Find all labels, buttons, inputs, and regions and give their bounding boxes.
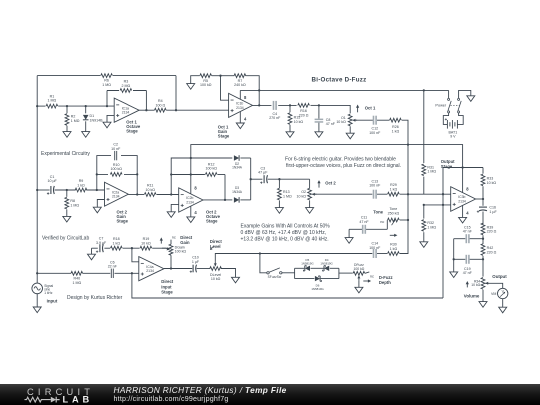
wire R29 to opamp: [400, 193, 451, 195]
ground DFuzz: [355, 287, 363, 293]
svg-text:nc: nc: [172, 236, 176, 240]
label Output Stage: [441, 159, 455, 169]
wire Oct2 to C13: [330, 193, 372, 195]
svg-text:R40: R40: [74, 276, 81, 280]
svg-text:R2: R2: [71, 115, 76, 119]
wire DLevel to C14: [260, 253, 387, 255]
resistor R8: [65, 190, 79, 216]
ground rail B: [420, 242, 428, 248]
label D-Fuzz Depth: [379, 275, 393, 285]
footer title text: [114, 385, 287, 395]
svg-text:100 kΩ: 100 kΩ: [353, 267, 364, 271]
wire IC1a plus to ground: [107, 115, 114, 122]
wire R6 to output node: [175, 76, 177, 112]
footer bar: [0, 384, 540, 405]
potentiometer DFuzz: [353, 263, 374, 287]
capacitor C8: [315, 105, 336, 131]
resistor R42: [481, 244, 496, 277]
resistor R2: [65, 106, 80, 132]
label Output: [492, 274, 507, 279]
switch SFuzzSw: [267, 268, 282, 279]
svg-text:10 kΩ: 10 kΩ: [294, 120, 304, 124]
ground filter: [450, 272, 458, 278]
capacitor C15: [454, 225, 483, 243]
svg-text:220 Ω: 220 Ω: [487, 250, 497, 254]
svg-text:100 kΩ: 100 kΩ: [175, 250, 187, 254]
svg-text:R18: R18: [113, 237, 120, 241]
svg-text:1 kΩ: 1 kΩ: [390, 247, 398, 251]
svg-text:Oct 1: Oct 1: [365, 106, 376, 111]
svg-text:Verified by CircuitLab: Verified by CircuitLab: [42, 236, 89, 242]
label Input: [47, 299, 58, 304]
ground R5 left: [187, 76, 200, 90]
svg-text:1 MΩ: 1 MΩ: [71, 119, 80, 123]
svg-text:R13: R13: [283, 190, 290, 194]
svg-text:nc: nc: [380, 220, 384, 224]
wire R3 feedback: [107, 91, 148, 112]
svg-text:1 MΩ: 1 MΩ: [427, 170, 436, 174]
svg-text:VM: VM: [491, 292, 496, 296]
pin 4 IC3b: [463, 205, 470, 217]
svg-text:10 kΩ: 10 kΩ: [141, 242, 151, 246]
diode D3: [232, 186, 243, 203]
wire C13 to R29: [377, 193, 387, 195]
ground C11: [345, 238, 353, 244]
svg-text:47 nF: 47 nF: [359, 220, 369, 224]
svg-text:R31: R31: [427, 165, 434, 169]
svg-text:Tone: Tone: [373, 209, 383, 214]
resistor R40: [71, 271, 83, 284]
svg-text:10 µF: 10 µF: [47, 179, 57, 183]
resistor R31: [422, 90, 436, 194]
wire R19 junction to minus: [132, 248, 139, 262]
annotation arrow volume: [466, 281, 469, 287]
svg-text:1 MΩ: 1 MΩ: [102, 83, 111, 87]
svg-text:100 Ω: 100 Ω: [155, 103, 165, 107]
diode D5: [301, 258, 314, 271]
svg-text:1 kHz: 1 kHz: [44, 291, 53, 295]
ground switch: [467, 96, 475, 102]
svg-text:250 kΩ: 250 kΩ: [388, 211, 400, 215]
svg-text:10 kΩ: 10 kΩ: [211, 277, 221, 281]
op-amp IC4a: [139, 257, 164, 281]
pin 4 IC2b: [191, 206, 198, 217]
wire diode join: [240, 158, 262, 200]
pin 8 IC3b: [463, 168, 470, 193]
wire input row2: [37, 189, 104, 191]
voltmeter VM: [491, 288, 508, 298]
potentiometer O2: [297, 188, 330, 207]
CircuitLab logo: [25, 387, 95, 405]
svg-text:2134: 2134: [112, 195, 120, 199]
capacitor C4: [269, 101, 281, 120]
pin 8 stub IC1b: [240, 90, 247, 100]
wire IC3b feedback: [443, 166, 483, 194]
svg-text:SFuzzSw: SFuzzSw: [268, 275, 282, 279]
svg-text:9 V: 9 V: [450, 135, 456, 139]
potentiometer DGain: [162, 243, 186, 270]
diode D6: [311, 276, 324, 291]
wire long vertical: [442, 194, 444, 298]
svg-text:R32: R32: [427, 221, 434, 225]
svg-text:R30: R30: [390, 243, 397, 247]
ground under R15: [286, 132, 294, 138]
svg-text:47 nF: 47 nF: [463, 230, 473, 234]
svg-text:R42: R42: [487, 246, 494, 250]
annotation arrow tone: [390, 234, 398, 237]
resistor R29: [388, 183, 400, 196]
capacitor C19: [454, 255, 483, 275]
svg-text:10 nF: 10 nF: [111, 147, 121, 151]
svg-text:R11: R11: [147, 184, 153, 188]
wire IC2a plus ground: [97, 200, 104, 208]
svg-text:R33: R33: [487, 177, 494, 181]
resistor R32: [422, 205, 436, 242]
wire R7 to out: [246, 76, 261, 107]
potentiometer O1: [336, 114, 373, 133]
potentiometer R34 volume: [471, 278, 488, 302]
ground under D1: [82, 132, 90, 138]
annotation arrow Oct 1: [356, 105, 376, 113]
ground IC1b pin4: [236, 123, 244, 129]
svg-text:10 kΩ: 10 kΩ: [471, 283, 480, 287]
resistor R16: [298, 104, 310, 118]
svg-text:47 µF: 47 µF: [258, 171, 268, 175]
svg-text:1 MΩ: 1 MΩ: [283, 195, 292, 199]
resistor R18: [111, 237, 123, 250]
label Tone: [373, 209, 383, 214]
svg-text:2134: 2134: [186, 200, 194, 204]
svg-text:R9: R9: [79, 179, 84, 183]
svg-text:LAB: LAB: [63, 394, 94, 404]
wire to DFuzz: [339, 272, 353, 274]
svg-text:1 MΩ: 1 MΩ: [48, 99, 57, 103]
svg-text:C12: C12: [372, 127, 379, 131]
resistor R6: [101, 74, 113, 87]
diode D1: [83, 106, 103, 132]
svg-text:DGain: DGain: [175, 245, 185, 249]
ground DLevel: [232, 277, 240, 283]
capacitor C6: [108, 260, 118, 278]
wire IC2a out: [128, 193, 178, 195]
label nc DGain: [171, 236, 176, 244]
svg-text:100 nF: 100 nF: [369, 246, 381, 250]
op-amp IC3b: [451, 187, 476, 212]
svg-text:Volume: Volume: [464, 294, 480, 299]
svg-text:10 kΩ: 10 kΩ: [145, 188, 155, 192]
note example gains: [241, 224, 331, 243]
svg-text:Input: Input: [47, 299, 58, 304]
svg-text:1N914B: 1N914B: [90, 118, 104, 122]
ground source: [33, 307, 41, 313]
op-amp IC2b: [179, 188, 203, 212]
potentiometer Tone: [387, 207, 408, 229]
svg-text:240 kΩ: 240 kΩ: [234, 83, 246, 87]
svg-text:10 kΩ: 10 kΩ: [336, 120, 346, 124]
wire IC4a out: [164, 268, 211, 270]
resistor R13: [278, 179, 292, 207]
diode D4: [320, 258, 333, 271]
wire IC2b plus ground: [171, 204, 179, 211]
wire C12 to R26: [377, 119, 389, 121]
svg-text:1 kΩ: 1 kΩ: [77, 183, 85, 187]
label Oct 2 Gain Stage: [117, 209, 129, 223]
svg-text:+13.2 dBV @ 10 kHz, 0 dBV @ 40: +13.2 dBV @ 10 kHz, 0 dBV @ 40 kHz.: [241, 236, 329, 242]
svg-text:1 kΩ: 1 kΩ: [390, 188, 398, 192]
label Direct Input Stage: [161, 279, 173, 294]
svg-text:Example Gains With All Control: Example Gains With All Controls At 50%: [241, 224, 331, 230]
svg-text:100 nF: 100 nF: [369, 184, 381, 188]
svg-text:Output: Output: [492, 274, 507, 279]
svg-text:Stage: Stage: [117, 219, 129, 224]
ground under O1: [346, 133, 354, 139]
ground IC2a plus: [93, 207, 101, 213]
svg-text:C16: C16: [489, 205, 496, 209]
resistor R11: [144, 184, 156, 197]
wire IC3b out: [476, 198, 485, 206]
ground under R2: [63, 132, 71, 138]
svg-text:Stage: Stage: [206, 219, 218, 224]
ground IC3b pin4: [459, 217, 467, 223]
label Direct Level: [210, 239, 222, 249]
wire C11 ground: [348, 229, 350, 237]
wire IC2b out: [203, 175, 232, 202]
svg-text:C8: C8: [326, 118, 331, 122]
capacitor C2: [111, 142, 121, 161]
capacitor C1: [47, 175, 58, 195]
footer url text: [114, 395, 229, 403]
capacitor C11: [349, 216, 387, 234]
svg-text:D1: D1: [90, 114, 95, 118]
ground under C8: [315, 132, 323, 138]
annotation arrow DFuzz: [363, 279, 371, 282]
svg-text:47 nF: 47 nF: [463, 271, 473, 275]
ground C7: [88, 254, 96, 260]
svg-text:100 kΩ: 100 kΩ: [110, 167, 122, 171]
svg-text:R1: R1: [50, 94, 55, 98]
svg-text:1N34A: 1N34A: [232, 166, 243, 170]
ground under O2: [306, 208, 314, 214]
svg-text:2134: 2134: [236, 106, 244, 110]
op-amp IC1a: [114, 98, 139, 122]
svg-text:1N5819G: 1N5819G: [311, 287, 324, 291]
wire R5 to minus: [212, 75, 229, 101]
op-amp IC2a: [105, 182, 129, 206]
resistor R3: [119, 80, 133, 94]
ground IC2b plus: [167, 212, 175, 218]
label For 6-string: [285, 156, 401, 169]
svg-text:O1: O1: [341, 116, 346, 120]
resistor R33: [481, 174, 496, 199]
ground IC1a plus: [103, 122, 111, 128]
svg-text:C14: C14: [372, 242, 379, 246]
wire railB mid: [423, 204, 425, 206]
wire IC2b minus net: [170, 158, 232, 195]
svg-text:R19: R19: [143, 237, 150, 241]
resistor R5: [200, 74, 212, 87]
wire C3 out: [268, 178, 310, 188]
label nc tone: [380, 220, 384, 224]
svg-text:For 6-string electric guitar.: For 6-string electric guitar. Provides t…: [285, 156, 396, 162]
label Volume: [464, 294, 480, 299]
resistor R1: [46, 94, 58, 108]
wire diode box: [295, 268, 339, 278]
svg-text:0 dBV @ 63 Hz, +17.4 dBV @ 10: 0 dBV @ 63 Hz, +17.4 dBV @ 10 kHz,: [241, 230, 327, 236]
svg-text:R8: R8: [70, 199, 75, 203]
wire IC1a out: [139, 109, 229, 111]
resistor R19: [140, 237, 152, 250]
diode D2: [232, 155, 243, 169]
label Experimental Circuitry: [41, 151, 90, 157]
svg-text:1 MΩ: 1 MΩ: [72, 281, 81, 285]
annotation arrow DGain: [160, 237, 163, 243]
svg-text:1 MΩ: 1 MΩ: [427, 225, 436, 229]
label Oct 1 Gain Stage: [218, 124, 230, 138]
wire fuzz branch: [260, 254, 267, 273]
svg-text:O2: O2: [301, 190, 306, 194]
resistor R39: [481, 223, 496, 244]
ground meter: [499, 307, 507, 313]
svg-text:R7: R7: [238, 79, 243, 83]
svg-text:R16: R16: [300, 109, 307, 113]
wire D2 right: [240, 157, 250, 159]
svg-text:2134: 2134: [146, 269, 154, 273]
title Bi-Octave D-Fuzz: [312, 76, 367, 83]
wire IC1b out: [253, 104, 351, 113]
svg-text:100 kΩ: 100 kΩ: [205, 167, 217, 171]
potentiometer DLevel: [210, 252, 261, 281]
switch SW1 power: [435, 90, 461, 113]
wire volume to meter: [485, 283, 502, 288]
wire C2 R10 feedback: [96, 156, 139, 196]
resistor R15: [288, 105, 303, 131]
svg-text:Power: Power: [435, 104, 446, 108]
capacitor C14: [369, 242, 381, 258]
resistor R7: [221, 74, 246, 87]
ground under R8: [63, 216, 71, 222]
capacitor C12: [369, 116, 381, 135]
svg-text:Experimental Circuitry: Experimental Circuitry: [41, 151, 90, 157]
svg-text:1 MΩ: 1 MΩ: [70, 204, 79, 208]
capacitor C3: [258, 166, 268, 184]
capacitor C13: [369, 180, 381, 199]
wire Oct1 summing rail: [400, 120, 410, 253]
svg-text:2134: 2134: [122, 111, 130, 115]
svg-text:R26: R26: [392, 125, 399, 129]
svg-text:C7: C7: [99, 236, 104, 240]
wire bottom bus: [132, 273, 443, 298]
wire IC3b plus: [424, 204, 451, 206]
svg-text:47 nF: 47 nF: [326, 122, 336, 126]
label Oct 1 Octave Stage: [126, 119, 141, 133]
svg-text:Bi-Octave D-Fuzz: Bi-Octave D-Fuzz: [312, 76, 367, 83]
svg-text:10 kΩ: 10 kΩ: [487, 181, 497, 185]
pin 4 stub IC1b: [240, 112, 247, 124]
signal source SIG1: [32, 283, 54, 295]
resistor R9: [75, 179, 87, 192]
wire switch to ground: [459, 90, 471, 98]
svg-text:220 Ω: 220 Ω: [487, 230, 497, 234]
svg-text:nc: nc: [370, 274, 374, 278]
wire input bus: [37, 105, 114, 107]
ground volume: [479, 302, 487, 308]
svg-text:R5: R5: [203, 79, 208, 83]
svg-text:10 kΩ: 10 kΩ: [297, 194, 307, 198]
label Oct 2 Octave Stage: [206, 209, 221, 223]
svg-text:1 kΩ: 1 kΩ: [113, 242, 121, 246]
battery BAT1: [443, 113, 463, 139]
resistor R12: [205, 163, 217, 177]
svg-text:C10: C10: [192, 256, 199, 260]
wire switch to diodes: [282, 272, 295, 274]
svg-text:Stage: Stage: [161, 290, 173, 295]
svg-text:Stage: Stage: [126, 128, 138, 133]
resistor R30: [388, 243, 400, 256]
wire meter ground: [502, 299, 504, 308]
capacitor C7: [96, 236, 107, 253]
svg-text:1N5819G: 1N5819G: [320, 262, 333, 266]
resistor R26: [390, 118, 402, 133]
svg-text:R6: R6: [104, 79, 109, 83]
svg-text:1N5819G: 1N5819G: [301, 262, 314, 266]
wire left rail: [36, 76, 38, 283]
svg-text:2134: 2134: [458, 199, 466, 203]
label Direct Gain: [180, 235, 192, 245]
svg-text:C11: C11: [361, 216, 367, 220]
wire C7 chain: [92, 247, 167, 254]
svg-text:1 kΩ: 1 kΩ: [392, 130, 400, 134]
label Design by Kurtus Richter: [67, 295, 123, 301]
svg-text:22 nF: 22 nF: [108, 264, 118, 268]
svg-text:C3: C3: [260, 166, 265, 170]
svg-text:C2: C2: [113, 142, 118, 146]
svg-text:2 MΩ: 2 MΩ: [122, 84, 131, 88]
svg-text:R4: R4: [158, 99, 163, 103]
annotation arrow Oct 2: [317, 180, 336, 188]
svg-text:Design by Kurtus Richter: Design by Kurtus Richter: [67, 295, 123, 301]
resistor R4: [155, 99, 167, 112]
svg-text:100 nF: 100 nF: [369, 131, 381, 135]
svg-text:C4: C4: [272, 112, 277, 116]
svg-text:R3: R3: [124, 80, 129, 84]
resistor R10: [108, 163, 124, 178]
svg-text:R39: R39: [487, 225, 494, 229]
svg-text:100 kΩ: 100 kΩ: [200, 83, 212, 87]
wire C15 C19 join: [453, 239, 455, 272]
label Verified by CircuitLab: [42, 236, 89, 242]
capacitor C16: [477, 205, 498, 224]
ground IC2b pin4: [187, 217, 195, 223]
ground under R13: [275, 208, 283, 214]
svg-text:220 Ω: 220 Ω: [299, 113, 309, 117]
svg-text:1 µF: 1 µF: [489, 210, 497, 214]
svg-text:Depth: Depth: [379, 280, 391, 285]
wire supply row 2: [190, 145, 463, 194]
svg-text:Gain: Gain: [180, 240, 190, 245]
svg-text:270 nF: 270 nF: [269, 116, 281, 120]
svg-text:R29: R29: [390, 183, 397, 187]
svg-text:1N34A: 1N34A: [232, 190, 243, 194]
wire input to source: [37, 272, 139, 274]
svg-text:Oct 2: Oct 2: [325, 180, 336, 185]
wire supply row 1: [240, 89, 448, 91]
wire top feedback row: [37, 75, 176, 77]
svg-text:Stage: Stage: [218, 133, 230, 138]
capacitor C10: [190, 256, 200, 273]
svg-text:first-upper-octave voices, plu: first-upper-octave voices, plus Fuzz on …: [286, 163, 401, 169]
svg-text:3.9 µF: 3.9 µF: [96, 241, 107, 245]
svg-text:1 µF: 1 µF: [192, 260, 200, 264]
